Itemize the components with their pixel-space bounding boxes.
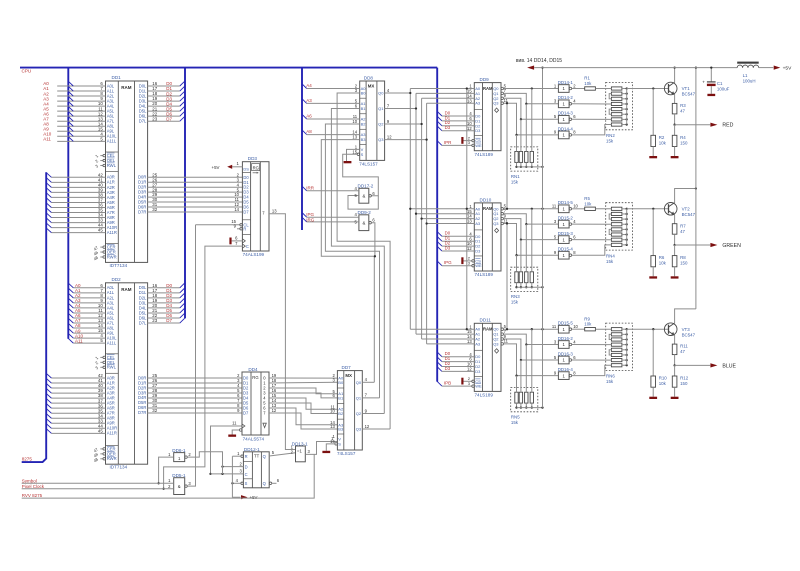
DD1 pin A8R wire from 8275 bus <box>46 213 115 220</box>
DD8 output Q1 <box>378 103 390 111</box>
svg-text:Pixel Clock: Pixel Clock <box>22 484 45 489</box>
DD9-2 output drop to staircase <box>371 223 376 258</box>
wire DD8 Q1 to address bus <box>385 107 418 109</box>
DD11 pin D0 tap label D0 <box>437 351 481 359</box>
svg-text:15k: 15k <box>606 139 614 144</box>
label Pixel Clock with wire to DD5-1 pin 2 <box>22 484 174 489</box>
svg-text:DD9: DD9 <box>480 77 490 82</box>
DD2 pin D6L wire to data bus <box>139 313 185 320</box>
svg-text:DD16-4: DD16-4 <box>558 367 574 372</box>
DD11 pin D1 tap label D1 <box>437 356 481 364</box>
inductor L1 100uH <box>737 62 759 84</box>
address bus vertical bit2 <box>421 98 423 339</box>
+5V feed vertical to RN commons <box>541 66 543 407</box>
transistor VT2 BC547 <box>664 203 695 217</box>
DD2 pin A11L wire from CPU bus <box>68 338 117 345</box>
DD2 pin A9R wire from 8275 bus <box>46 418 115 425</box>
wire DD8 Q3 to address bus <box>385 138 428 140</box>
DD2 pin OER stub <box>93 451 116 458</box>
wire DD2 D0R to DD4 D0 <box>148 377 242 379</box>
label RVV 8275 with wire <box>22 454 315 498</box>
svg-text:B3: B3 <box>338 427 344 432</box>
RN3 resistor 4 <box>530 272 533 283</box>
DD1 pin CER stub <box>93 244 116 251</box>
DD9 Q2 fan wire to gate 3 <box>504 98 559 120</box>
DD12-1 pin C <box>211 469 244 475</box>
DD1 pin D5R <box>138 197 158 204</box>
svg-text:B2: B2 <box>338 411 344 416</box>
DD9 open-collector diamond symbol <box>495 108 499 112</box>
svg-text:DD10: DD10 <box>480 197 492 202</box>
DD11 pin D3 tap label D3 <box>437 366 481 374</box>
svg-text:C: C <box>245 472 248 477</box>
DD7 pin B1 <box>332 393 344 400</box>
DD9 pin WE from IPR tap <box>437 140 482 148</box>
+5V feed vertical to VT2/VT3 collectors <box>695 66 697 308</box>
wire DD4 Q5 to DD7 <box>269 403 337 414</box>
wire gate4 output to RN row8 <box>572 125 612 135</box>
DD4 pin D3 input and Q3 output <box>237 388 277 395</box>
wire Q0 row tie vertical across stages <box>466 87 468 330</box>
RN5 bottom common wire to +5V rail vertical <box>515 403 543 409</box>
VT3 collector wire to +5V vertical <box>675 309 696 323</box>
DD4 pin D2 input and Q2 output <box>237 383 277 390</box>
inverter DD14-1 body <box>554 80 576 92</box>
DD11 open-collector diamond symbol <box>495 349 499 353</box>
svg-text:13: 13 <box>467 339 472 344</box>
DD2 pin A1R wire from 8275 bus <box>46 378 115 385</box>
svg-text:74LS189: 74LS189 <box>475 393 494 398</box>
DD7 pin A2 <box>330 404 344 411</box>
DD3 pin D7 <box>234 207 249 214</box>
inverter DD16-2 body <box>554 336 576 348</box>
wire DD1 D1R to DD3 D1 <box>148 181 243 183</box>
wire DD4 Q0 to DD7 <box>269 377 337 379</box>
RN1 resistor 4 <box>530 152 533 163</box>
svg-text:A3: A3 <box>306 98 312 103</box>
svg-text:DD3: DD3 <box>248 156 258 161</box>
wire DD7 Q1 to staircase vertical <box>362 397 379 399</box>
svg-text:IPB: IPB <box>444 381 451 386</box>
RN6 resistor row 6 <box>611 353 627 356</box>
wire Q3 vertical into RN1 <box>516 135 518 152</box>
DD8 A tap label A6 <box>302 113 360 119</box>
resistor R6 10k base divider with ground <box>649 209 666 279</box>
svg-text:RN1: RN1 <box>511 174 520 179</box>
svg-text:D7L: D7L <box>139 320 147 325</box>
svg-text:14: 14 <box>234 207 239 212</box>
DD11 output Q0 <box>493 324 506 332</box>
RN6 resistor row 8 <box>611 364 627 367</box>
wire DD2 D4R to DD4 D4 <box>148 397 242 399</box>
RN4 resistor row 4 <box>611 223 627 226</box>
DD1 pin A7L wire from CPU bus <box>43 116 115 123</box>
DD11 pin D2 tap label D2 <box>437 361 481 369</box>
svg-text:Q3: Q3 <box>378 137 384 142</box>
DD10 Q1 fan wire to gate 2 <box>504 214 559 226</box>
svg-text:DD2: DD2 <box>112 277 122 282</box>
svg-text:DD5-1: DD5-1 <box>172 473 186 478</box>
register DD4 74ALS574 body <box>242 367 269 441</box>
svg-text:A8: A8 <box>306 129 312 134</box>
DD1 pin D3R <box>138 187 158 194</box>
wire Q0 vertical into RN3 <box>531 209 533 272</box>
svg-text:D7: D7 <box>243 209 249 214</box>
svg-text:Q3: Q3 <box>493 341 499 346</box>
svg-text:B3: B3 <box>361 137 367 142</box>
resistor R4 150 with ground <box>671 125 688 159</box>
wire DD1 D5R to DD3 D5 <box>148 201 243 203</box>
VT1 collector wire to +5V rail <box>673 66 675 82</box>
DD1 pin D2R <box>138 182 158 189</box>
DD9 pin D1 tap label D1 <box>437 115 481 123</box>
wire gate2 output to RN row4 <box>572 103 612 105</box>
DD11 Q3 fan wire to gate 4 <box>504 344 559 377</box>
svg-text:DD15-2: DD15-2 <box>558 216 574 221</box>
AND gate DD9-2 body <box>358 210 372 231</box>
DD9-2 input 5 from IRG tap <box>302 217 375 224</box>
svg-text:74ALS199: 74ALS199 <box>243 252 265 257</box>
RN6 resistor row 4 <box>611 343 627 346</box>
wire DD8 B3 staircase to DD7 output <box>321 140 374 383</box>
RN2 resistor row 7 <box>611 118 627 121</box>
DD9 pin D2 tap label D2 <box>437 120 481 128</box>
wire gate2 output to RN row4 <box>572 223 612 225</box>
svg-text:Q1: Q1 <box>356 395 362 400</box>
DD11 output Q1 <box>493 329 506 337</box>
DD1 pin A10R wire from 8275 bus <box>46 223 117 230</box>
DD1 pin A3L wire from CPU bus <box>43 96 115 103</box>
address bus vertical bit0 <box>409 89 411 330</box>
svg-text:RN4: RN4 <box>606 253 615 258</box>
wire DD4 Q4 to DD7 <box>269 398 337 409</box>
DD11 Q1 fan wire to gate 2 <box>504 334 559 346</box>
DD8 S pin wire from DD17-2 output <box>343 154 379 196</box>
DD1 pin A2R wire from 8275 bus <box>46 182 115 189</box>
wire gate3 output to RN row7 <box>572 359 612 361</box>
DD8 pin B2 <box>352 119 366 126</box>
RN2 right common vertical <box>626 89 628 125</box>
DD7 S pin to ground <box>322 444 335 453</box>
DD10 output Q1 <box>493 209 506 217</box>
resistor R3 47 emitter <box>672 94 686 114</box>
wire Q2 vertical into RN3 <box>520 240 522 272</box>
DD10 Q2 fan wire to gate 3 <box>504 219 559 241</box>
wire DD1 D2R to DD3 D2 <box>148 186 243 188</box>
svg-text:100uH: 100uH <box>743 79 756 84</box>
svg-text:IPG: IPG <box>444 260 452 265</box>
DD2 pin A0R wire from 8275 bus <box>46 373 115 380</box>
svg-text:DD9-2: DD9-2 <box>358 210 372 215</box>
wire DD8 B1 staircase to DD7 output <box>331 109 384 414</box>
DD3 pin D5 <box>235 197 250 204</box>
DD1 pin D2L wire to data bus <box>139 91 185 98</box>
svg-text:R11: R11 <box>680 344 688 349</box>
RN2 resistor row 4 <box>611 102 627 105</box>
dual-port RAM DD1 IDT7134 body <box>106 75 148 268</box>
bus vertical x437 (to DD9/DD10/DD11 taps) <box>436 68 438 382</box>
DD11 pin A1 from address bus <box>416 329 481 336</box>
svg-text:R1: R1 <box>584 76 590 81</box>
svg-text:DD14-1: DD14-1 <box>558 80 574 85</box>
DD8 pin cell dividers <box>360 98 366 144</box>
DD4 pin D1 input and Q1 output <box>237 378 277 385</box>
RAM DD9 74LS189 body <box>474 77 501 157</box>
svg-text:S: S <box>361 152 364 157</box>
DD2 pin A9L wire from CPU bus <box>68 328 115 335</box>
wire Q1 vertical into RN1 <box>525 104 527 152</box>
svg-text:15k: 15k <box>511 300 519 305</box>
RN4 left pair links <box>609 214 611 235</box>
svg-text:RWR: RWR <box>107 254 117 259</box>
DD9 pin D0 tap label D0 <box>437 110 481 118</box>
DD11 pin A2 from address bus <box>422 334 481 341</box>
wire DD1 D4R to DD3 D4 <box>148 196 243 198</box>
wire gate4 output to RN row8 <box>572 365 612 375</box>
RN6 right common vertical <box>626 329 628 365</box>
svg-text:D3: D3 <box>475 369 481 374</box>
label RN5 <box>511 415 520 426</box>
label RN4 <box>606 253 615 264</box>
svg-text:DD17-2: DD17-2 <box>358 184 374 189</box>
wire DD2 D1R to DD4 D1 <box>148 382 242 384</box>
DD11 pin A0 from address bus <box>410 324 481 331</box>
svg-text:Q3: Q3 <box>493 101 499 106</box>
DD3 pin CL <box>196 219 250 227</box>
svg-text:10k: 10k <box>659 140 667 145</box>
svg-text:RN6: RN6 <box>606 374 615 379</box>
DD10 pin D2 tap label D2 <box>437 241 481 249</box>
RN2 resistor row 3 <box>611 97 627 100</box>
RN1 resistor 2 <box>519 152 522 163</box>
svg-text:D3: D3 <box>445 366 451 371</box>
svg-text:D7: D7 <box>243 411 249 416</box>
DD6-1 input wire from Symbol <box>157 452 173 485</box>
svg-text:D: D <box>245 465 248 470</box>
svg-text:DD7: DD7 <box>342 365 352 370</box>
DD4 pin D0 input and Q0 output <box>237 373 277 380</box>
label Symbol with wire to DD5-1 pin 1 <box>22 479 174 484</box>
svg-text:150: 150 <box>680 261 688 266</box>
DD4 pin D6 input and Q6 output <box>237 403 277 410</box>
wire DD8 Q2 to address bus <box>385 123 423 125</box>
wire DD8 B0 staircase to DD7 output <box>337 93 390 429</box>
wire DD8 Q0 to address bus <box>385 92 412 94</box>
RN4 resistor row 6 <box>611 233 627 236</box>
resistor R9 10k <box>572 316 596 331</box>
DD9 output Q3 <box>493 98 508 106</box>
svg-text:45: 45 <box>98 428 103 433</box>
DD1 pin A1R wire from 8275 bus <box>46 177 115 184</box>
DD7 pin A3 <box>330 420 344 427</box>
svg-text:R10: R10 <box>659 376 668 381</box>
svg-text:DD14-2: DD14-2 <box>558 95 574 100</box>
svg-text:RWL: RWL <box>107 365 117 370</box>
DD9 pin CS with tie bar <box>461 135 481 143</box>
DD4 pin OE with ground <box>228 429 242 437</box>
DD1 pin D5L wire to data bus <box>139 106 185 113</box>
wire gate3 output to RN row7 <box>572 239 612 241</box>
svg-text:R4: R4 <box>680 135 686 140</box>
DD1 pin D3L wire to data bus <box>139 96 185 103</box>
DD8 output Q0 <box>378 88 390 96</box>
DD2 pin A0L wire from CPU bus <box>68 283 115 290</box>
resistor network RN5 dashed box <box>511 388 538 412</box>
DD1 pin A6R wire from 8275 bus <box>46 203 115 210</box>
DD1 pin A11L wire from CPU bus <box>43 136 117 143</box>
DD10 pin CS with tie bar <box>461 256 481 264</box>
DD2 pin D5L wire to data bus <box>139 308 185 315</box>
DD2 pin D1R <box>138 378 158 385</box>
DD2 pin D5R <box>138 398 158 405</box>
svg-text:Q0: Q0 <box>378 91 384 96</box>
wire DD2 D7R to DD4 D7 <box>148 412 242 414</box>
svg-text:&: & <box>362 194 365 199</box>
DD4 pin D5 input and Q5 output <box>237 398 277 405</box>
resistor network RN1 dashed box <box>511 147 538 171</box>
DD7 pin B0 <box>332 377 344 384</box>
DD7 output Q3 <box>356 424 370 432</box>
svg-text:Q3: Q3 <box>356 427 362 432</box>
svg-text:10k: 10k <box>584 322 592 327</box>
DD8 pin A2 <box>353 114 367 121</box>
DD7 pin A1 <box>332 389 344 396</box>
svg-text:DD14-5: DD14-5 <box>558 200 574 205</box>
svg-text:D3: D3 <box>445 245 451 250</box>
resistor R1 10k <box>572 76 596 91</box>
DD1 pin D6R <box>138 202 158 209</box>
DD2 pin A10R wire from 8275 bus <box>46 423 117 430</box>
wire R to transistor base <box>595 328 668 330</box>
svg-text:A11: A11 <box>43 137 51 142</box>
DD3 pin D6 <box>234 202 249 209</box>
svg-text:R: R <box>243 226 246 231</box>
label RN3 <box>511 294 520 305</box>
svg-text:RWL: RWL <box>107 163 117 168</box>
output arrow RED <box>673 114 733 129</box>
RN5 resistor 1 <box>515 392 518 403</box>
DD6-1 output wire to DD12 D loop <box>187 452 222 474</box>
wire Q1 vertical into RN3 <box>525 224 527 272</box>
DD9 pin A1 from address bus <box>416 89 481 96</box>
DD2 pin CEL stub <box>94 355 115 361</box>
RN3 bottom common wire to +5V rail vertical <box>515 283 543 289</box>
wire loop DD3 C2 to Pixel Clock <box>162 246 242 490</box>
multiplexer DD7 74LS157 body <box>337 365 362 456</box>
wire DD7 Q3 to staircase vertical <box>362 428 390 430</box>
DD9 Q3 fan wire to gate 4 <box>504 103 559 136</box>
svg-text:DD15-3: DD15-3 <box>558 231 574 236</box>
DD10 output Q3 <box>493 218 508 226</box>
DD2 pin D7R <box>138 408 158 415</box>
RN2 resistor row 1 <box>611 87 627 90</box>
svg-text:R2: R2 <box>659 135 665 140</box>
svg-text:C: C <box>246 244 249 249</box>
RN2 resistor row 6 <box>611 113 627 116</box>
svg-text:BC547: BC547 <box>682 212 696 217</box>
DD12-1 output Qbar stub <box>269 478 280 484</box>
svg-text:DD16-2: DD16-2 <box>558 336 574 341</box>
DD7 pin V <box>332 434 341 441</box>
svg-text:WE: WE <box>475 143 482 148</box>
svg-text:23: 23 <box>152 116 157 121</box>
DD10 pin A2 from address bus <box>420 214 480 221</box>
RN5 resistor 3 <box>525 392 528 403</box>
svg-text:D3: D3 <box>445 125 451 130</box>
DD5-1 output wire to DD3 CL loop <box>187 225 195 486</box>
wire chain DD10 Q3 to DD11 Q0 row <box>506 222 508 330</box>
svg-text:100uF: 100uF <box>717 86 730 91</box>
DD1 pin A4R wire from 8275 bus <box>46 193 115 200</box>
DD1 pin A9R wire from 8275 bus <box>46 218 115 225</box>
bus vertical x185 (data bus right of DD1/DD2) <box>184 68 186 319</box>
DD2 pin A1L wire from CPU bus <box>68 288 115 295</box>
svg-text:Symbol: Symbol <box>22 479 37 484</box>
svg-text:+5V: +5V <box>212 165 220 170</box>
DD8 pin B3 <box>352 135 366 142</box>
svg-text:RN5: RN5 <box>511 415 520 420</box>
svg-text:RVV 8275: RVV 8275 <box>22 493 43 498</box>
DD1 pin A8L wire from CPU bus <box>43 121 115 128</box>
svg-text:RWR: RWR <box>107 456 117 461</box>
svg-text:GREEN: GREEN <box>722 243 741 249</box>
RN6 left pair links <box>609 334 611 355</box>
transistor VT3 BC547 <box>664 323 695 337</box>
XOR gate DD13-1 body <box>292 441 308 461</box>
resistor network RN2 dashed box <box>606 82 633 129</box>
svg-text:11: 11 <box>232 420 237 425</box>
DD2 pin A7L wire from CPU bus <box>68 318 115 325</box>
DD2 pin A6R wire from 8275 bus <box>46 403 115 410</box>
VT2 collector wire to +5V vertical <box>675 187 697 203</box>
DD12-1 pin D from DD6-1 loop <box>221 461 243 467</box>
DD2 pin RWR stub <box>93 456 117 463</box>
svg-text:74LS157: 74LS157 <box>337 451 356 456</box>
DD1 pin OEL stub <box>94 158 116 164</box>
svg-text:IRR: IRR <box>306 186 315 191</box>
svg-text:RED: RED <box>722 123 733 129</box>
svg-text:12: 12 <box>467 126 472 131</box>
address bus vertical bit3 <box>426 103 428 344</box>
DD8 pin B1 <box>355 104 367 111</box>
svg-text:10k: 10k <box>584 81 592 86</box>
DD1 pin D7R <box>138 207 158 214</box>
svg-text:WE: WE <box>475 263 482 268</box>
RN6 resistor row 5 <box>611 348 627 351</box>
DD9 pin A3 from address bus <box>427 98 481 105</box>
svg-text:13: 13 <box>330 424 335 429</box>
DD12-1 pin R with +5V tie <box>232 451 243 458</box>
svg-text:Q2: Q2 <box>356 411 362 416</box>
svg-text:12: 12 <box>272 408 277 413</box>
svg-text:A11L: A11L <box>107 341 117 346</box>
RN6 resistor row 3 <box>611 338 627 341</box>
resistor network RN3 dashed box <box>511 267 538 291</box>
RAM DD10 74LS189 body <box>474 197 501 277</box>
wire DD2 D6R to DD4 D6 <box>148 407 242 409</box>
inverter DD16-4 body <box>554 367 576 379</box>
DD8 pin B0 <box>355 88 367 95</box>
svg-text:13: 13 <box>352 135 357 140</box>
wire DD7 Q0 to staircase vertical <box>362 381 374 383</box>
DD10 pin D1 tap label D1 <box>437 236 481 244</box>
svg-text:IDT7134: IDT7134 <box>110 465 128 470</box>
svg-text:74LS189: 74LS189 <box>475 152 494 157</box>
RN3 resistor 1 <box>515 272 518 283</box>
wire DD2 D2R to DD4 D2 <box>148 387 242 389</box>
svg-text:12: 12 <box>467 367 472 372</box>
DD11 output Q3 <box>493 339 508 347</box>
